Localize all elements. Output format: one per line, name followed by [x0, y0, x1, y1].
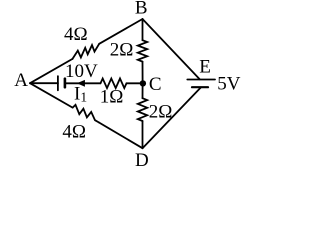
resistor 4ohm upper-left	[73, 44, 100, 59]
resistor 2ohm lower	[138, 98, 147, 121]
svg-text:B: B	[135, 0, 148, 18]
wire resistor to D	[142, 121, 144, 148]
svg-text:2Ω: 2Ω	[149, 102, 173, 123]
svg-text:10V: 10V	[65, 61, 98, 82]
battery 10V long plate	[57, 76, 59, 90]
resistor 2ohm upper	[138, 40, 147, 61]
svg-text:D: D	[135, 150, 149, 171]
svg-text:2Ω: 2Ω	[110, 39, 134, 60]
wire resistor to node C	[127, 82, 143, 84]
svg-text:5V: 5V	[217, 74, 241, 95]
battery 10V short plate	[64, 79, 67, 88]
resistor 1ohm	[101, 79, 127, 89]
wire resistor to node B	[99, 19, 142, 44]
svg-text:I1: I1	[74, 84, 87, 105]
wire D to battery E	[143, 87, 202, 148]
battery E short plate	[192, 86, 208, 88]
svg-text:A: A	[14, 70, 28, 91]
wire B to battery E	[143, 19, 200, 79]
svg-text:4Ω: 4Ω	[62, 121, 86, 142]
wire A to battery 10V	[30, 82, 58, 84]
battery E long plate	[187, 79, 215, 81]
wire resistor to C	[142, 62, 144, 84]
node C junction dot	[140, 80, 146, 86]
wire A to upper-left resistor	[30, 59, 73, 83]
wire C to resistor 2ohm lower	[142, 83, 144, 98]
current arrow I1	[78, 80, 85, 86]
svg-text:4Ω: 4Ω	[64, 24, 88, 45]
wire A to lower-left resistor	[30, 83, 73, 107]
svg-text:1Ω: 1Ω	[100, 86, 124, 107]
resistor 4ohm lower-left	[73, 105, 99, 123]
svg-text:E: E	[199, 56, 211, 77]
wire B to resistor 2ohm upper	[142, 19, 144, 40]
wire battery to resistor 1ohm	[65, 82, 101, 84]
svg-text:C: C	[149, 74, 162, 95]
wire resistor to node D	[99, 123, 143, 149]
